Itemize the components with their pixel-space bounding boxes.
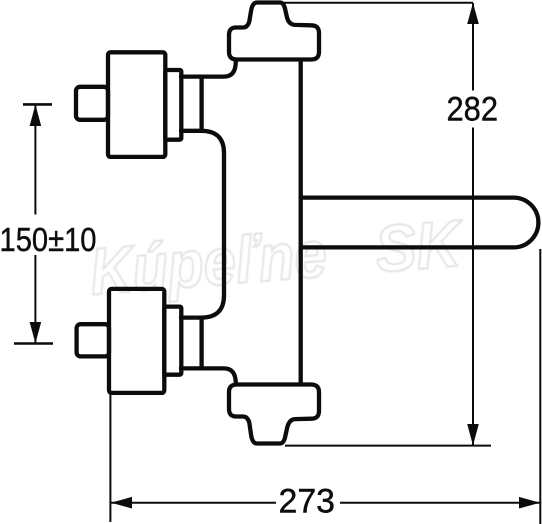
extension line from flange top to 282 dim <box>283 2 473 4</box>
extension line left of 273 dim <box>109 394 111 522</box>
dim line 273 right segment <box>340 502 540 504</box>
top valve bonnet <box>165 70 181 140</box>
svg-text:150±10: 150±10 <box>0 221 97 258</box>
spout <box>301 198 539 248</box>
top valve knob <box>108 52 165 157</box>
top wall escutcheon <box>229 3 319 60</box>
top valve cartridge right edge <box>199 77 203 131</box>
tick bottom of 150 dim <box>14 342 53 345</box>
svg-text:273: 273 <box>279 482 336 520</box>
arrowhead 282 top <box>467 3 479 24</box>
bottom valve cartridge right edge <box>199 318 203 369</box>
arrowhead 150 bottom <box>30 322 42 343</box>
body neck lower (bottom valve to flange) <box>181 368 236 384</box>
top valve handle tip <box>76 87 108 120</box>
body right edge <box>299 61 303 384</box>
dim line 150 upper segment <box>34 105 36 215</box>
svg-text:Kúpeľne: Kúpeľne <box>87 216 329 308</box>
tick top of 150 dim <box>23 103 52 106</box>
extension line right of 273 dim <box>539 249 541 524</box>
watermark KupelneSK <box>87 205 467 308</box>
arrowhead 273 left <box>111 497 132 509</box>
bottom wall escutcheon <box>229 385 319 444</box>
dim line 150 lower segment <box>34 255 36 343</box>
dim line 273 left segment <box>111 502 276 504</box>
bottom valve handle tip <box>77 324 109 356</box>
dim line 282 lower segment <box>472 128 474 446</box>
dim line 282 upper segment <box>472 3 474 91</box>
svg-text:282: 282 <box>447 90 499 128</box>
arrowhead 282 bottom <box>467 424 479 446</box>
bottom valve bonnet <box>164 307 181 375</box>
bottom reference line (wall datum) <box>285 445 491 447</box>
body left edge between valves <box>181 131 224 318</box>
body neck upper (top valve to flange) <box>181 61 236 77</box>
arrowhead 150 top <box>30 105 42 126</box>
bottom valve knob <box>109 289 164 393</box>
arrowhead 273 right <box>519 497 540 509</box>
